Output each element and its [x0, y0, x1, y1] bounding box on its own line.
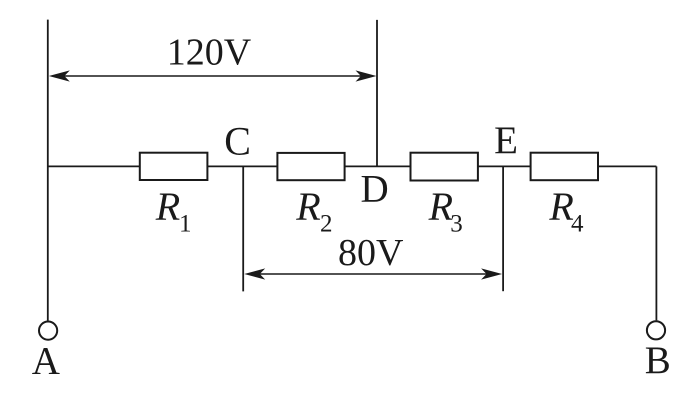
svg-text:3: 3 — [450, 211, 463, 238]
80V dimension arrow — [244, 268, 502, 279]
resistor R1 — [140, 153, 208, 180]
svg-text:C: C — [224, 118, 251, 163]
svg-text:2: 2 — [320, 211, 333, 238]
wire main horizontal segment A to R1 — [47, 165, 141, 167]
svg-text:120V: 120V — [167, 32, 252, 74]
wire segment R3 to R4 through node E — [477, 165, 531, 167]
svg-text:80V: 80V — [338, 232, 404, 274]
wire node C drop — [242, 166, 244, 291]
resistor R3 — [411, 153, 478, 181]
svg-text:R: R — [295, 184, 320, 229]
wire right vertical (node B riser) — [655, 166, 657, 320]
resistor R4 — [531, 153, 598, 181]
wire segment R2 to R3 through node D — [344, 165, 411, 167]
terminal A — [39, 322, 57, 340]
wire segment R1 to R2 through node C — [207, 165, 278, 167]
svg-text:1: 1 — [179, 211, 192, 238]
svg-text:4: 4 — [571, 211, 584, 238]
wire left vertical (node A riser) — [47, 20, 49, 321]
label R2 — [295, 184, 332, 238]
wire segment R4 to B riser — [597, 165, 656, 167]
svg-text:R: R — [155, 184, 180, 229]
120V dimension arrow — [49, 70, 377, 81]
label R3 — [428, 184, 463, 238]
svg-text:B: B — [645, 339, 671, 382]
svg-text:E: E — [494, 119, 518, 162]
label R1 — [155, 184, 192, 238]
terminal B — [647, 321, 665, 339]
label R4 — [548, 184, 584, 238]
svg-text:A: A — [32, 340, 60, 383]
svg-text:D: D — [361, 168, 389, 211]
resistor R2 — [277, 153, 344, 180]
wire node E drop — [502, 166, 504, 291]
wire node D riser — [376, 20, 378, 167]
